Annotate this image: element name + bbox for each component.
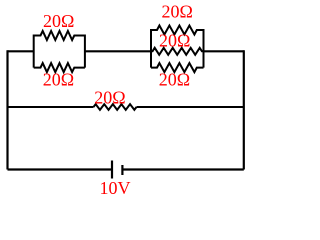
resistor 20Ω bottom branch of left parallel pair xyxy=(34,63,85,72)
svg-text:20Ω: 20Ω xyxy=(159,30,190,50)
svg-text:10V: 10V xyxy=(100,178,131,198)
svg-text:20Ω: 20Ω xyxy=(162,1,193,21)
wire middle span between blocks xyxy=(85,50,151,52)
wire bottom left segment to battery xyxy=(8,168,112,170)
wire right rail (vertical) xyxy=(243,50,245,169)
resistor 20Ω middle branch of right parallel triple xyxy=(151,48,204,55)
wire left rail (vertical) xyxy=(6,50,8,169)
wire left entry to left parallel block xyxy=(8,50,34,52)
wire bottom right segment from battery xyxy=(122,168,243,170)
wire middle horizontal left segment xyxy=(8,106,94,108)
svg-text:20Ω: 20Ω xyxy=(43,69,74,89)
svg-text:20Ω: 20Ω xyxy=(43,11,74,31)
resistor 20Ω top branch of left parallel pair (with block left/right edges) xyxy=(34,31,85,68)
resistor 20Ω top branch of right parallel triple (with block left/right edges) xyxy=(151,26,204,68)
svg-text:20Ω: 20Ω xyxy=(94,88,125,108)
resistor 20Ω on middle horizontal wire xyxy=(94,104,137,110)
battery 10V short plate (right) xyxy=(121,165,123,175)
wire middle horizontal right segment xyxy=(137,106,244,108)
wire right span from right block to right rail xyxy=(204,50,244,52)
battery 10V long plate (left) xyxy=(111,161,113,179)
svg-text:20Ω: 20Ω xyxy=(159,69,190,89)
resistor 20Ω bottom branch of right parallel triple xyxy=(151,63,204,72)
